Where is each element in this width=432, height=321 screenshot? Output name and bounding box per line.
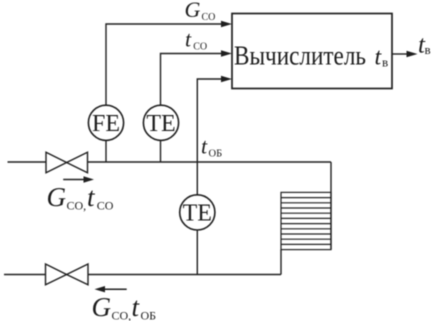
svg-text:TE: TE <box>146 111 175 137</box>
svg-text:t: t <box>185 27 192 52</box>
svg-text:СО,: СО, <box>112 309 132 321</box>
sensor TE2 (return temperature) <box>180 195 215 230</box>
svg-text:FE: FE <box>92 111 120 137</box>
svg-text:G: G <box>92 292 112 321</box>
sensor TE1 (supply temperature) <box>143 105 178 140</box>
svg-text:G: G <box>185 0 201 22</box>
svg-text:t: t <box>201 134 208 159</box>
svg-text:Вычислитель: Вычислитель <box>234 41 366 71</box>
wire t_OB signal (TE2 to computer, crossing supply pipe) <box>197 79 223 195</box>
svg-text:СО: СО <box>97 199 114 213</box>
wire output t_v <box>392 53 408 55</box>
valve V2 (return) <box>46 264 89 285</box>
svg-text:СО: СО <box>193 42 207 53</box>
arrowhead t_OB input <box>221 76 232 83</box>
flow arrow supply (rightward) <box>63 179 85 181</box>
svg-text:TE: TE <box>183 200 212 226</box>
flow arrow return (leftward) <box>104 288 127 290</box>
wire supply pipe drop to heat exchanger <box>330 162 332 250</box>
wire FE drop to supply pipe <box>105 140 107 162</box>
wire TE2 drop to return pipe <box>196 230 198 275</box>
svg-text:СО,: СО, <box>67 199 87 213</box>
heat exchanger (radiator) <box>281 192 331 249</box>
svg-text:в: в <box>382 54 388 69</box>
svg-text:ОБ: ОБ <box>141 309 157 321</box>
arrowhead output t_v <box>407 51 418 58</box>
wire supply pipe right segment <box>88 161 332 163</box>
wire heat exchanger to return pipe <box>280 250 282 275</box>
arrowhead G_CO input <box>221 21 232 28</box>
svg-text:t: t <box>87 182 96 212</box>
svg-text:t: t <box>132 292 141 321</box>
wire return pipe right segment <box>88 274 281 276</box>
svg-text:G: G <box>47 182 67 212</box>
computer box U1 <box>232 14 392 89</box>
wire G_CO signal (FE to computer) <box>106 24 223 105</box>
svg-text:СО: СО <box>202 12 216 23</box>
wire return pipe left segment <box>4 274 46 276</box>
sensor FE (flow element) <box>88 105 123 140</box>
arrowhead t_CO input <box>221 50 232 57</box>
wire t_CO signal (TE1 to computer) <box>161 54 224 106</box>
svg-text:в: в <box>425 42 431 57</box>
wire supply pipe left segment <box>8 161 47 163</box>
valve V1 (supply) <box>46 152 88 172</box>
svg-text:ОБ: ОБ <box>209 148 223 159</box>
wire TE1 drop to supply pipe <box>160 140 162 162</box>
